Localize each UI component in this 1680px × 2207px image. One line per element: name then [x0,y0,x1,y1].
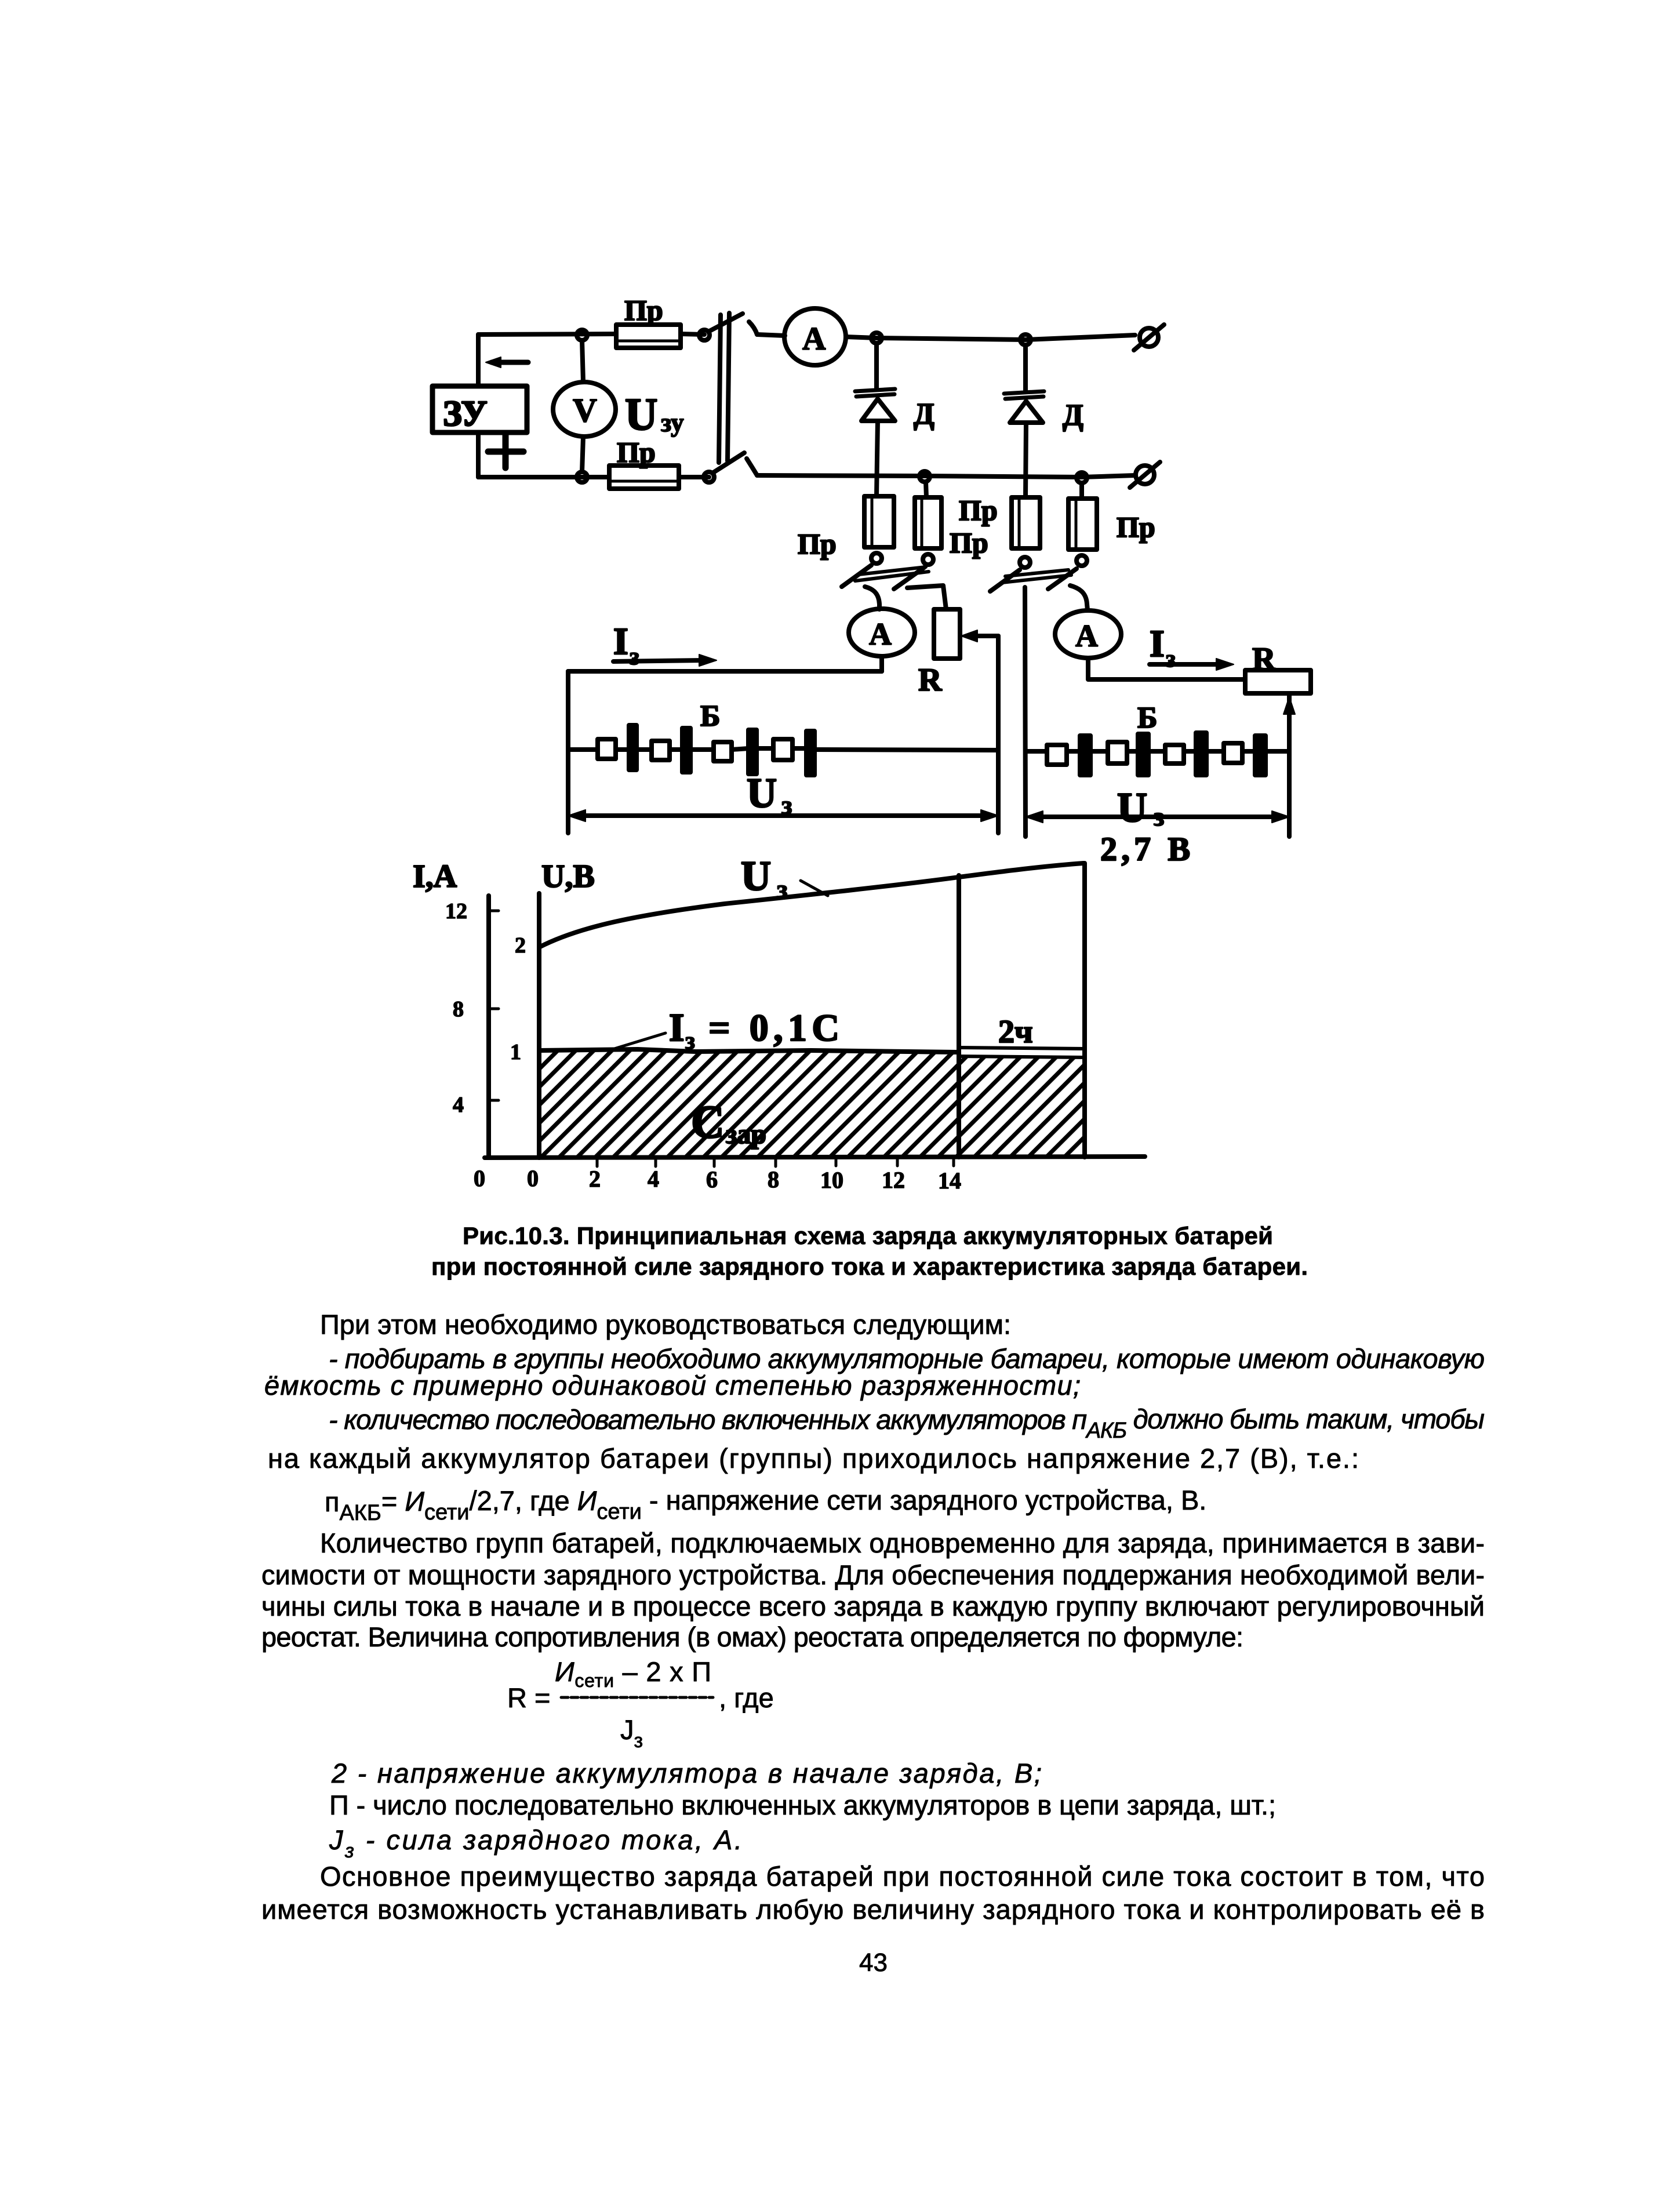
svg-text:симости от мощности зарядного: симости от мощности зарядного устройства… [261,1559,1485,1590]
switch S3 blades [990,570,1020,591]
wire mid vertical to group2 [1025,587,1026,837]
svg-text:реостат. Величина сопротивлени: реостат. Величина сопротивления (в омах)… [261,1621,1243,1652]
wire fuse2 drop [926,482,926,497]
svg-text:ЗУ: ЗУ [443,394,488,434]
node bottom of voltmeter branch [577,472,587,482]
arrow I3 group1 [613,660,703,661]
curve U3 [539,863,1083,947]
wire R2 down [1287,693,1292,837]
wire right vertical group1 [996,636,1001,833]
svg-text:Jз - сила зарядного тока, А.: Jз - сила зарядного тока, А. [329,1824,742,1862]
arrow above charger [492,360,528,365]
switch blade bottom [712,453,744,473]
svg-text:П - число последовательно вклю: П - число последовательно включенных акк… [329,1790,1276,1820]
wire diode1 anode [874,343,879,390]
contact under fuse4 [923,554,933,565]
line terminal top [1140,328,1158,347]
diode D2 [1004,391,1044,399]
rheostat R2 [1245,670,1311,693]
wire loop1 left vertical [566,671,570,833]
contact under fuse5 [1020,557,1030,568]
svg-text:Д: Д [914,398,934,431]
svg-text:при постоянной силе зарядного: при постоянной силе зарядного тока и хар… [431,1253,1308,1280]
svg-text:U,В: U,В [541,859,595,895]
node switch bottom left [704,472,714,482]
ammeter A1 [784,308,846,365]
svg-text:Б: Б [700,700,720,733]
rheostat R1 [934,609,960,659]
fuse FU6 [1068,499,1097,550]
node fuse4 tap [1077,472,1087,483]
wire to ammeter A3 [1070,586,1088,610]
current line after 14h [959,1048,1085,1049]
svg-text:Пр: Пр [1117,511,1155,543]
svg-text:I: I [1150,623,1165,665]
svg-text:8: 8 [768,1166,779,1192]
switch blade top [708,314,743,332]
wire node to voltmeter [582,340,583,382]
wire bottom rail right [757,475,1135,477]
wire ammeter A2 to loop [879,656,884,671]
fraction dashes [561,1696,713,1699]
wire top rail mid [681,334,704,334]
svg-text:U: U [1117,784,1147,831]
fuse FU1 top [616,325,681,348]
leader U3 to curve [801,881,828,896]
wire to rheostat R1 [907,586,946,609]
svg-text:Jз: Jз [620,1714,643,1752]
plus sign below charger [488,435,523,468]
svg-text:С: С [691,1097,725,1148]
svg-text:12: 12 [445,899,467,923]
node fuse2 tap [919,471,930,482]
svg-text:ёмкость с примерно одинаковой: ёмкость с примерно одинаковой степенью р… [264,1370,1081,1401]
svg-text:6: 6 [706,1166,718,1192]
line terminal bottom [1136,466,1154,484]
svg-text:R =: R = [507,1682,550,1713]
svg-text:, где: , где [719,1682,774,1713]
svg-text:2 - напряжение аккумулятора в: 2 - напряжение аккумулятора в начале зар… [331,1758,1042,1788]
svg-text:R: R [918,662,942,698]
svg-text:А: А [802,321,826,357]
svg-text:на каждый аккумулятор батареи: на каждый аккумулятор батареи (группы) п… [268,1443,1359,1474]
svg-text:0: 0 [474,1165,485,1191]
svg-text:Исети – 2 х П: Исети – 2 х П [555,1656,711,1691]
svg-text:пАКБ= Исети/2,7, где Исети - н: пАКБ= Исети/2,7, где Исети - напряжение … [325,1485,1206,1525]
svg-text:2: 2 [589,1166,601,1192]
leader I3 label [609,1033,666,1050]
svg-text:з: з [685,1028,695,1055]
wire top rail left [478,334,616,334]
hatched area C zar [541,1052,959,1158]
diode D1 [855,389,895,397]
svg-text:При этом необходимо руководств: При этом необходимо руководствоваться сл… [320,1309,1011,1340]
node top of voltmeter branch [577,330,587,340]
axis X horizontal [485,1157,1145,1158]
svg-text:имеется возможность устанавлив: имеется возможность устанавливать любую … [261,1894,1485,1925]
svg-text:А: А [869,617,892,652]
svg-text:з: з [630,643,639,670]
switch S1 double bar [719,313,729,463]
axis U vertical [537,893,541,1158]
svg-text:14: 14 [938,1168,961,1194]
svg-text:2ч: 2ч [998,1014,1033,1050]
svg-text:U: U [625,389,657,439]
node diode1 top [871,333,882,343]
svg-text:з: з [1166,646,1176,672]
svg-text:з: з [777,874,788,904]
svg-text:Д: Д [1063,399,1083,432]
svg-text:43: 43 [859,1948,888,1977]
wire diode2 to fuse3 [1026,423,1026,497]
wire diode2 anode [1023,345,1028,392]
arrow into R1 [969,634,998,638]
vertical at 14h [957,875,961,1157]
svg-text:V: V [573,391,597,429]
vertical right edge [1082,863,1087,1157]
svg-text:0: 0 [527,1165,539,1191]
wire bottom rail mid [679,475,709,479]
fuse FU4 [915,497,941,548]
battery B2 string [1026,749,1289,754]
svg-text:8: 8 [453,997,464,1021]
switch S2 blades [842,565,871,587]
axis I vertical [486,896,491,1158]
svg-text:I,А: I,А [413,859,457,895]
node diode2 top [1020,334,1031,345]
battery B1 string [568,748,998,750]
svg-text:1: 1 [510,1040,521,1064]
arrow I3 group2 [1150,662,1220,667]
svg-text:чины силы тока в начале и в пр: чины силы тока в начале и в процессе все… [261,1591,1485,1621]
svg-text:Пр: Пр [624,294,663,326]
wire left vertical lower [476,432,481,477]
svg-text:- количество последовательно в: - количество последовательно включенных … [329,1404,1485,1443]
voltmeter V1 [553,382,616,437]
svg-text:10: 10 [820,1167,843,1193]
svg-text:U: U [747,770,777,816]
svg-text:зу: зу [661,408,684,437]
svg-text:4: 4 [453,1093,464,1117]
wire to ammeter A2 [865,587,879,609]
fuse FU5 [1012,497,1040,548]
current line I3 [539,1049,959,1052]
svg-text:2,7 В: 2,7 В [1100,830,1190,868]
svg-text:А: А [1075,619,1098,653]
wire ammeter A3 to R2 [1088,658,1245,679]
fuse FU2 bottom [609,466,679,489]
svg-text:U: U [741,853,771,899]
wire loop1 top [568,669,882,674]
svg-text:I: I [613,620,628,663]
dimension line U3 group2 [1034,815,1281,819]
wire top rail right [757,334,785,336]
svg-text:Основное преимущество заряда б: Основное преимущество заряда батарей при… [320,1861,1485,1892]
svg-text:12: 12 [882,1167,905,1193]
wire left vertical upper [476,334,481,386]
wire fuse4 drop [1079,483,1084,499]
switch hook top right [749,322,757,334]
svg-text:2: 2 [515,933,526,958]
svg-text:Пр: Пр [798,528,837,560]
wire ammeter to line terminal [846,335,1135,340]
wire diode1 to fuse1 [877,421,878,496]
contact under fuse6 [1077,555,1087,566]
wire bottom rail left [478,475,609,479]
contact under fuse3 [871,553,882,563]
ammeter A3 [1055,610,1121,658]
svg-text:I: I [669,1005,684,1049]
node switch top left [699,330,710,340]
svg-text:Рис.10.3. Принципиальная схема: Рис.10.3. Принципиальная схема заряда ак… [463,1222,1273,1249]
svg-text:Количество групп батарей, подк: Количество групп батарей, подключаемых о… [320,1528,1485,1558]
svg-text:4: 4 [648,1166,659,1192]
fuse FU3 [864,496,894,547]
svg-text:Пр: Пр [959,494,998,526]
svg-text:зар: зар [726,1119,766,1150]
switch hook bottom right [747,459,757,475]
wire voltmeter to bottom rail [582,437,583,472]
arrow up into R2 [1283,697,1295,714]
svg-text:= 0,1С: = 0,1С [708,1007,839,1049]
dimension line U3 group1 [577,813,990,818]
ammeter A2 [849,609,915,656]
svg-text:Пр: Пр [950,526,988,559]
charger ZU box [432,386,527,432]
svg-text:Б: Б [1137,701,1157,735]
